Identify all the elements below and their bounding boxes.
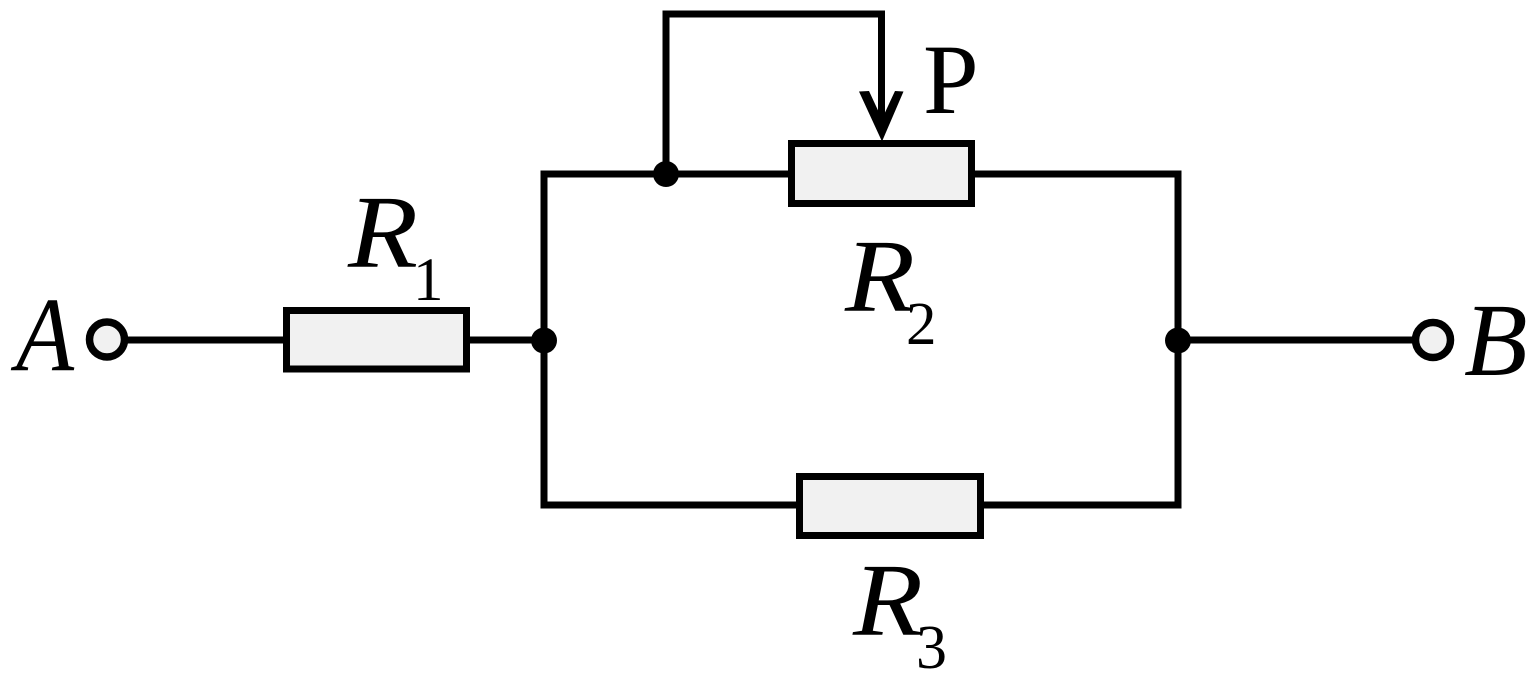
- svg-text:2: 2: [906, 291, 937, 358]
- svg-text:3: 3: [916, 614, 947, 678]
- svg-text:P: P: [923, 24, 979, 135]
- svg-text:R: R: [852, 543, 923, 658]
- svg-text:R: R: [844, 219, 915, 334]
- svg-text:1: 1: [413, 247, 444, 314]
- svg-text:A: A: [11, 276, 75, 393]
- svg-text:R: R: [347, 175, 418, 290]
- svg-text:B: B: [1464, 283, 1528, 398]
